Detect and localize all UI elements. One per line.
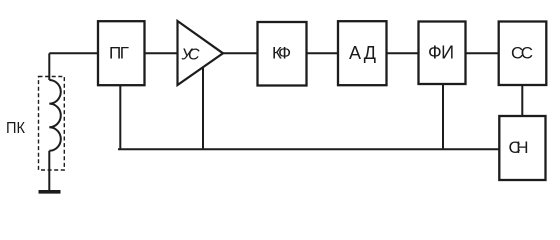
svg-text:СС: СС — [511, 44, 533, 63]
svg-text:ПК: ПК — [6, 120, 26, 137]
svg-text:ПГ: ПГ — [109, 44, 129, 63]
svg-text:КФ: КФ — [272, 44, 291, 63]
svg-text:СН: СН — [509, 138, 529, 157]
svg-text:УС: УС — [181, 47, 200, 64]
svg-text:ФИ: ФИ — [428, 43, 454, 63]
